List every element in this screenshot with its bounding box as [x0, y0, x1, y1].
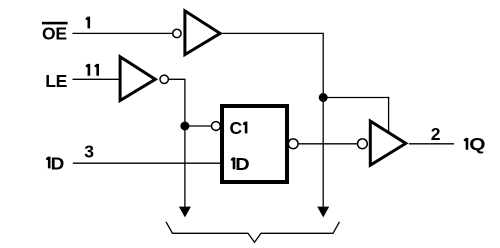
svg-text:D: D: [235, 154, 249, 174]
svg-text:C: C: [230, 118, 243, 138]
svg-text:3: 3: [84, 142, 94, 162]
svg-text:LE: LE: [45, 71, 67, 91]
svg-text:OE: OE: [42, 24, 67, 44]
svg-text:Q: Q: [469, 134, 485, 154]
svg-text:2: 2: [431, 124, 441, 144]
svg-text:D: D: [51, 153, 65, 173]
